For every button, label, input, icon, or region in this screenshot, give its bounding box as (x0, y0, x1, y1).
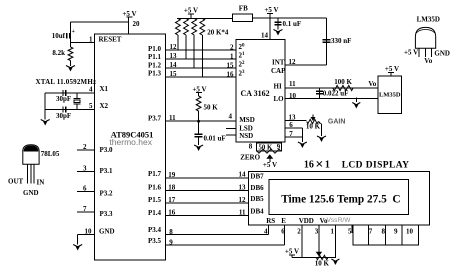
svg-text:GAIN: GAIN (328, 119, 346, 126)
svg-text:30pF: 30pF (56, 112, 71, 120)
svg-text:6: 6 (83, 185, 87, 193)
svg-text:11: 11 (169, 114, 176, 122)
svg-text:10: 10 (85, 228, 93, 236)
svg-text:IN: IN (37, 179, 45, 187)
svg-text:P1.1: P1.1 (148, 53, 162, 61)
svg-text:12: 12 (170, 43, 178, 51)
svg-text:P3.7: P3.7 (148, 115, 162, 123)
svg-text:P1.5: P1.5 (148, 196, 162, 204)
svg-text:+5 V: +5 V (264, 6, 278, 14)
svg-text:50 K: 50 K (259, 144, 273, 151)
svg-text:8: 8 (249, 143, 253, 151)
svg-text:+5 V: +5 V (385, 65, 399, 73)
svg-text:5: 5 (89, 102, 93, 110)
svg-text:12: 12 (289, 58, 297, 66)
svg-text:RESET: RESET (99, 36, 122, 44)
svg-text:11: 11 (239, 208, 246, 216)
svg-text:100 K: 100 K (334, 78, 352, 86)
svg-text:P3.0: P3.0 (100, 146, 114, 154)
svg-text:330 nF: 330 nF (331, 37, 351, 45)
svg-text:9: 9 (169, 239, 173, 247)
svg-text:4: 4 (229, 112, 233, 120)
svg-text:DB6: DB6 (250, 184, 264, 192)
svg-text:VDD: VDD (299, 217, 314, 225)
svg-text:11: 11 (289, 80, 296, 88)
svg-text:10: 10 (289, 92, 297, 100)
svg-text:3: 3 (315, 227, 319, 235)
svg-text:MSD: MSD (239, 116, 255, 124)
svg-text:R/W: R/W (338, 217, 352, 224)
svg-text:4: 4 (264, 227, 268, 235)
svg-text:19: 19 (168, 171, 176, 179)
svg-text:LM35D: LM35D (379, 92, 401, 99)
svg-text:FB: FB (239, 5, 248, 13)
svg-text:CAP: CAP (271, 67, 286, 75)
svg-text:15: 15 (170, 70, 178, 78)
svg-text:10 K: 10 K (315, 259, 330, 267)
svg-text:2: 2 (83, 143, 87, 151)
svg-text:DB5: DB5 (250, 195, 264, 203)
svg-text:50 K: 50 K (204, 104, 219, 112)
svg-text:12: 12 (239, 196, 247, 204)
svg-text:20: 20 (133, 20, 141, 28)
svg-text:Time 125.6 Temp 27.5 C: Time 125.6 Temp 27.5 C (281, 194, 400, 206)
svg-text:P3.4: P3.4 (148, 226, 162, 234)
svg-text:7: 7 (83, 205, 87, 213)
svg-text:13: 13 (170, 52, 178, 60)
svg-text:15: 15 (227, 62, 235, 70)
svg-text:P1.3: P1.3 (148, 70, 162, 78)
svg-text:E: E (281, 217, 286, 225)
svg-text:10uf: 10uf (52, 32, 66, 40)
svg-text:P3.1: P3.1 (100, 167, 114, 175)
svg-text:4: 4 (89, 86, 93, 94)
svg-text:6: 6 (289, 121, 293, 129)
svg-text:RS: RS (266, 217, 275, 225)
svg-text:X2: X2 (100, 102, 109, 110)
svg-text:LCD DISPLAY: LCD DISPLAY (342, 161, 410, 171)
svg-text:HI: HI (274, 82, 282, 90)
svg-text:+: + (72, 29, 76, 35)
svg-text:6: 6 (281, 227, 285, 235)
svg-text:3: 3 (83, 164, 87, 172)
svg-text:10 K: 10 K (306, 123, 321, 131)
svg-text:P1.2: P1.2 (148, 61, 162, 69)
svg-text:GND: GND (434, 49, 450, 57)
svg-text:XTAL 11.0592MHz: XTAL 11.0592MHz (36, 78, 97, 86)
svg-text:16: 16 (227, 71, 235, 79)
svg-text:16: 16 (168, 208, 176, 216)
svg-text:INT: INT (272, 59, 285, 67)
svg-text:78L05: 78L05 (41, 150, 60, 158)
svg-text:30pF: 30pF (56, 95, 71, 103)
svg-text:7: 7 (369, 227, 373, 235)
svg-text:5: 5 (348, 227, 352, 235)
svg-text:+5 V: +5 V (404, 49, 418, 57)
svg-text:P1.7: P1.7 (148, 170, 162, 178)
svg-text:0.01 uF: 0.01 uF (204, 135, 226, 143)
svg-text:Vo: Vo (368, 80, 376, 88)
svg-text:Vss: Vss (327, 217, 339, 224)
svg-text:X1: X1 (100, 85, 109, 93)
svg-text:P1.0: P1.0 (148, 45, 162, 53)
svg-text:17: 17 (168, 196, 176, 204)
svg-text:DB7: DB7 (250, 173, 264, 181)
svg-text:1: 1 (89, 36, 93, 44)
svg-text:P3.2: P3.2 (100, 190, 114, 198)
svg-text:P1.6: P1.6 (148, 183, 162, 191)
svg-text:14: 14 (261, 32, 269, 40)
svg-text:9: 9 (394, 227, 398, 235)
svg-text:2: 2 (230, 44, 234, 52)
svg-text:LO: LO (274, 95, 285, 103)
svg-text:0.1 uF: 0.1 uF (283, 20, 302, 28)
svg-text:8: 8 (382, 227, 386, 235)
svg-text:OUT: OUT (8, 178, 24, 186)
svg-text:7: 7 (289, 130, 293, 138)
svg-text:CA 3162: CA 3162 (241, 89, 270, 98)
svg-text:ZERO: ZERO (240, 153, 260, 161)
svg-text:0.022 uF: 0.022 uF (323, 89, 349, 97)
svg-text:10: 10 (406, 227, 414, 235)
svg-text:1: 1 (330, 227, 334, 235)
svg-text:16×1: 16×1 (304, 158, 330, 173)
svg-text:20 K*4: 20 K*4 (207, 29, 229, 37)
svg-text:14: 14 (239, 170, 247, 178)
svg-text:18: 18 (168, 184, 176, 192)
svg-text:LM35D: LM35D (417, 16, 440, 24)
svg-text:8: 8 (169, 228, 173, 236)
svg-text:2: 2 (297, 227, 301, 235)
svg-text:GND: GND (23, 189, 39, 197)
svg-text:DB4: DB4 (250, 207, 264, 215)
svg-text:1: 1 (230, 53, 234, 61)
svg-text:+5 V: +5 V (263, 161, 277, 169)
svg-text:P1.4: P1.4 (148, 209, 162, 217)
svg-text:NSD: NSD (239, 132, 253, 140)
svg-text:P3.5: P3.5 (148, 237, 162, 245)
svg-text:P3.3: P3.3 (100, 210, 114, 218)
svg-text:13: 13 (239, 184, 247, 192)
svg-text:14: 14 (170, 61, 178, 69)
svg-text:GND: GND (99, 228, 115, 236)
svg-text:thermo.hex: thermo.hex (109, 137, 152, 147)
svg-text:8.2k: 8.2k (52, 49, 65, 57)
svg-text:Vo: Vo (424, 57, 432, 65)
